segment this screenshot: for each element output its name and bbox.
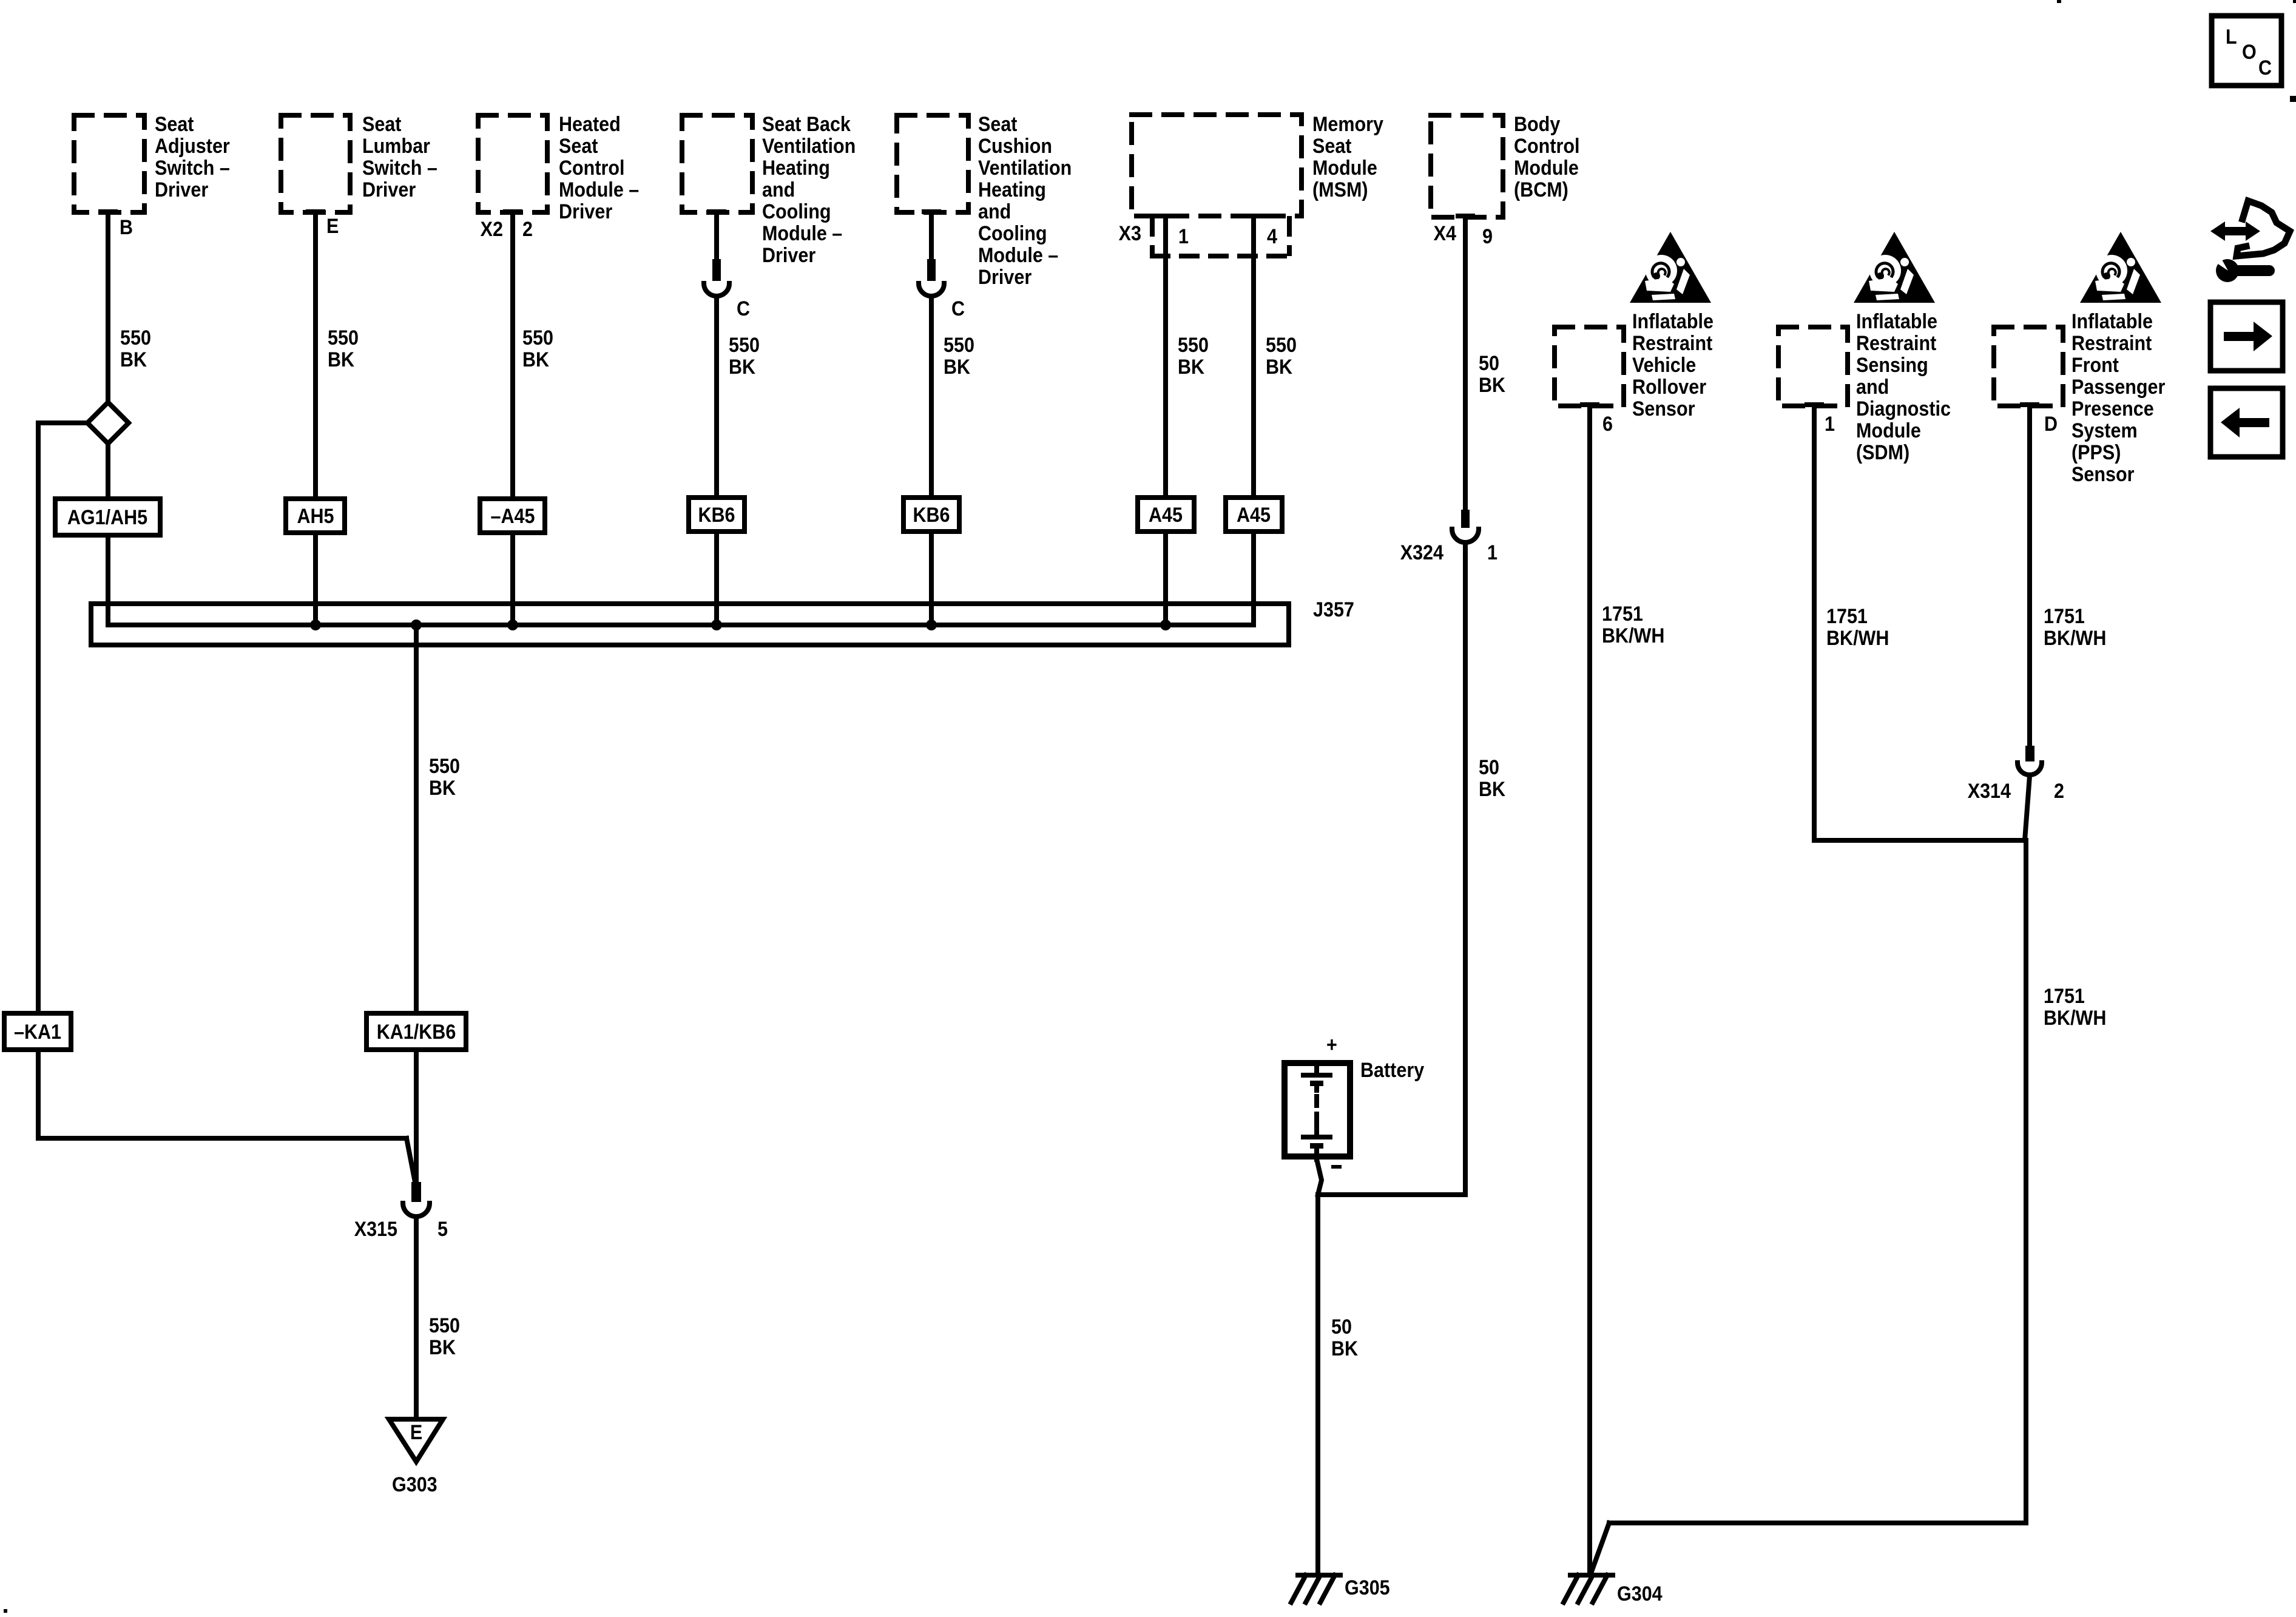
component box: Memory Seat Module (MSM) [1132,115,1302,216]
svg-text:550BK: 550BK [429,1314,460,1359]
svg-text:550BK: 550BK [729,333,760,378]
svg-text:–A45: –A45 [491,504,535,527]
component box: Body Control Module (BCM) [1431,115,1503,217]
airbag warning triangle (PPS) [2080,232,2161,303]
code box AG1/AH5 [55,499,160,535]
svg-text:O: O [2242,40,2257,63]
code box KB6 (seat back vent) [689,498,745,532]
svg-text:4: 4 [1267,224,1277,248]
component box: Seat Lumbar Switch - Driver [281,115,350,212]
battery long plate (top) [1303,1073,1330,1078]
svg-text:550BK: 550BK [944,333,974,378]
code box A45 (MSM pin 1) [1138,498,1194,532]
svg-text:A45: A45 [1237,503,1271,526]
pin C terminal bar [922,209,941,214]
splice diamond [87,402,129,444]
pin X2/2 terminal bar [503,209,522,214]
junction dot (Heated Seat) [507,619,518,630]
svg-text:G303: G303 [392,1473,437,1496]
in-line connector plug (pin C) [927,259,936,281]
connector X314 plug [2025,746,2034,761]
svg-text:G305: G305 [1345,1576,1390,1599]
battery bottom stub [1314,1149,1319,1160]
junction dot (Seat Back Vent) [711,619,722,630]
svg-text:1: 1 [1178,224,1189,248]
ground G303 symbol (triangle with E) [389,1419,443,1462]
svg-text:E: E [326,214,339,237]
pin 1 terminal bar [1805,402,1824,407]
svg-text:6: 6 [1602,412,1613,435]
connector X314 socket arc [2017,763,2042,775]
backward reference arrow box [2210,388,2283,457]
wire: diagonal into X315 plug [407,1138,415,1182]
pin B terminal bar [98,209,118,214]
battery top stub [1314,1063,1319,1074]
pin 4 terminal bar [1244,214,1263,218]
svg-text:+: + [1326,1033,1337,1056]
component box: Seat Back Ventilation Heating and Cooling Module - Driver [682,115,752,212]
wire: Seat Cushion Vent module down to in-line connector [929,212,934,261]
svg-text:X2: X2 [481,217,503,240]
svg-text:KA1/KB6: KA1/KB6 [377,1020,456,1043]
code box -A45 [480,499,545,533]
svg-text:AH5: AH5 [297,504,334,527]
svg-text:550BK: 550BK [1178,333,1209,378]
svg-text:J357: J357 [1313,598,1354,621]
wire: Seat Lumbar pin E down to bus [313,212,318,625]
junction dot (MSM pin 1) [1160,619,1171,630]
wire: MSM pin 1 down to bus [1163,216,1168,625]
wire: X315 down to ground G303 [414,1218,419,1419]
component box: Inflatable Restraint Sensing and Diagnostic Module (SDM) [1778,327,1848,406]
wire: left branch bottom horizontal to X315 [38,1136,407,1141]
MSM X3 connector sub-box [1150,218,1155,254]
in-line connector socket arc [704,283,729,296]
code box KA1/KB6 [366,1013,466,1050]
pin C terminal bar [707,209,726,214]
wire: Seat Adjuster pin B down to splice diamond [106,212,110,402]
svg-text:KB6: KB6 [698,503,735,526]
junction dot (Seat Lumbar) [310,619,321,630]
svg-text:550BK: 550BK [120,326,151,371]
code box KB6 (seat cushion vent) [903,498,959,532]
wire: MSM pin 4 down to bus right end [1251,216,1256,625]
svg-text:X3: X3 [1119,221,1141,245]
svg-text:550BK: 550BK [522,326,553,371]
wire: diamond left branch horizontal [38,420,87,425]
component box: Seat Cushion Ventilation Heating and Cooling Module - Driver [897,115,968,212]
connector X315 plug [411,1182,421,1202]
splice bus J357 outer box [91,604,1289,645]
airbag warning triangle (rollover sensor) [1630,232,1711,303]
battery short plate (bottom) [1310,1143,1323,1149]
svg-text:L: L [2226,25,2237,48]
ground G304 symbol [1564,1575,1613,1602]
svg-text:C: C [951,297,965,320]
svg-text:1: 1 [1825,412,1835,435]
wire: X324 down [1463,542,1468,1195]
component box: Heated Seat Control Module - Driver [478,115,547,212]
svg-text:–KA1: –KA1 [14,1020,61,1043]
battery negative label [1331,1165,1342,1169]
scan artifact dots [2057,0,2061,3]
wire: Heated Seat Control Module down to bus [510,212,515,625]
svg-text:550BK: 550BK [1266,333,1297,378]
svg-text:5: 5 [437,1217,448,1240]
battery short plate (top) [1310,1081,1323,1086]
wire: diamond down to AG1/AH5 code box [106,444,110,499]
wire: SDM horizontal to X314 junction [1814,838,2022,843]
connector X324 plug [1461,510,1470,528]
pin X4/9 terminal bar [1456,214,1475,218]
wire: junction down towards G304 [2024,840,2028,1523]
svg-text:G304: G304 [1617,1582,1663,1605]
in-line connector plug (pin C) [712,259,721,281]
pin 1 terminal bar [1156,214,1175,218]
wire: BCM pin 9 down to connector X324 [1463,217,1468,511]
forward reference arrow box [2210,302,2283,371]
junction dot (Seat Cushion Vent) [926,619,937,630]
svg-text:550BK: 550BK [328,326,359,371]
connector X324 socket arc [1452,529,1479,542]
LOC reference box [2212,16,2281,86]
svg-text:D: D [2044,412,2058,435]
svg-text:C: C [2258,56,2272,79]
splice bus J357 inner conductor [108,623,1254,627]
wire: horizontal toward ground G304 [1609,1521,2026,1525]
wire: X314 down to SDM junction [2025,776,2030,840]
component box: Inflatable Restraint Vehicle Rollover Sensor [1555,327,1624,406]
wire: bus tap down to KA1/KB6 code box [414,625,419,1013]
junction dot (tap to ground) [411,619,422,630]
wire: horizontal to battery negative [1318,1192,1465,1197]
wire: battery negative jog [1316,1156,1322,1195]
wire: AG1/AH5 box to bus inner line [106,535,110,625]
svg-text:B: B [120,215,133,238]
ground G305 symbol [1291,1575,1340,1602]
code box A45 (MSM pin 4) [1226,498,1282,532]
svg-text:1: 1 [1487,541,1497,564]
svg-text:AG1/AH5: AG1/AH5 [67,505,147,528]
wire: SDM pin 1 down [1812,405,1817,840]
component box: Seat Adjuster Switch - Driver [74,115,144,212]
wire: rollover sensor down to ground G304 [1587,405,1592,1573]
svg-text:550BK: 550BK [429,754,460,799]
svg-text:C: C [737,297,750,320]
code box -KA1 [4,1013,71,1050]
component box: Inflatable Restraint Front Passenger Presence System (PPS) Sensor [1994,327,2063,406]
connector X315 socket arc [403,1203,430,1217]
code box AH5 [286,499,345,533]
pin E terminal bar [306,209,325,214]
svg-text:KB6: KB6 [913,503,950,526]
svg-text:X4: X4 [1434,221,1456,245]
wire: connector to bus [929,296,934,625]
svg-text:E: E [410,1420,422,1443]
wire: Seat Back Vent module down to in-line connector [714,212,719,261]
wire: connector to bus [714,296,719,625]
battery box [1285,1063,1350,1156]
in-line connector socket arc [919,283,944,296]
battery center stub and dashes [1314,1086,1319,1090]
wire: battery negative down to ground G305 [1315,1195,1320,1573]
wire: PPS pin D down to connector X314 [2027,405,2032,747]
svg-text:Battery: Battery [1360,1058,1424,1081]
diagnostic tool icon (double arrow, connector outline, wrench) [2210,201,2290,282]
svg-text:X315: X315 [354,1217,397,1240]
wire: diagonal down to ground G304 [1591,1523,1609,1573]
wire: KA1/KB6 down to connector X315 [414,1050,419,1183]
wire: left branch vertical down [36,423,41,1138]
pin 6 terminal bar [1580,402,1599,407]
battery long plate (bottom) [1303,1135,1330,1139]
svg-text:2: 2 [522,217,533,240]
svg-text:9: 9 [1482,224,1493,248]
svg-text:X314: X314 [1968,779,2011,802]
svg-text:2: 2 [2054,779,2064,802]
airbag warning triangle (SDM) [1854,232,1935,303]
pin D terminal bar [2020,402,2039,407]
svg-text:X324: X324 [1400,541,1443,564]
svg-text:A45: A45 [1149,503,1183,526]
